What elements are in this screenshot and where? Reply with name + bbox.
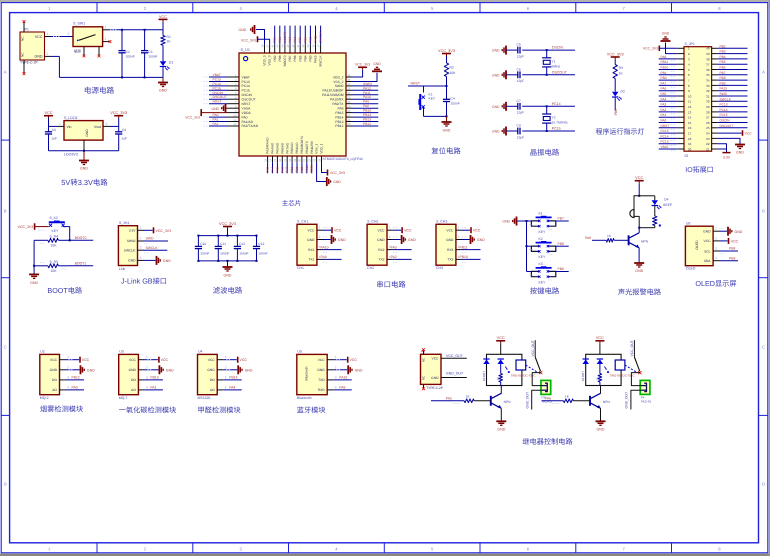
net VCC_OUT wire (441, 354, 467, 358)
svg-text:19: 19 (293, 158, 297, 162)
pin U5 1 to VCC (327, 355, 357, 363)
ground power circuit (158, 77, 168, 92)
svg-text:GND: GND (431, 376, 439, 380)
svg-text:OSCOUT: OSCOUT (720, 124, 734, 128)
svg-text:PA10: PA10 (363, 95, 371, 99)
zone divider left (1, 139, 9, 141)
svg-text:PA0: PA0 (72, 386, 78, 390)
svg-text:100nF: 100nF (239, 252, 248, 256)
pin CH1 3 net PA10 (317, 245, 342, 252)
svg-text:SWCLK: SWCLK (146, 246, 159, 250)
svg-text:1N4007: 1N4007 (482, 371, 486, 382)
capacitor C5 12pF (506, 43, 547, 59)
pin JP1 right 29 (718, 103, 748, 107)
pin U1 bottom 20 PB2/BOOT1 (298, 136, 304, 173)
svg-text:声光报警电路: 声光报警电路 (618, 287, 661, 296)
svg-text:VCC: VCC (446, 229, 454, 233)
pin U1 bottom 17 PA7/AD (283, 142, 289, 173)
svg-text:PB13: PB13 (335, 120, 343, 124)
zone divider left (1, 414, 9, 416)
pin JP1 right 21 (0, 0, 1, 1)
svg-text:10: 10 (688, 94, 692, 98)
svg-text:U2: U2 (40, 350, 45, 354)
pin CH2 3 net PA3 (387, 245, 412, 252)
junction filter vcc (227, 235, 229, 237)
svg-text:GND: GND (333, 180, 341, 184)
svg-text:PB3: PB3 (308, 37, 312, 43)
pin JP1 left 10 (659, 92, 718, 98)
wire U1 VSS_1 to GND (317, 162, 342, 186)
svg-text:OSCIN: OSCIN (213, 91, 224, 95)
zone divider right (759, 139, 768, 141)
svg-text:SWIO: SWIO (335, 84, 344, 88)
pin U1 top 46 PB9 (271, 26, 277, 62)
svg-text:34: 34 (706, 79, 710, 83)
svg-text:CH1: CH1 (297, 266, 304, 270)
module U9 OLED (685, 221, 713, 270)
pin U1 left 9 VDDA (228, 109, 252, 115)
pin CH1 2 to GND (317, 235, 346, 244)
svg-text:PA9: PA9 (363, 100, 369, 104)
pin U1 right 34 SWIO (335, 82, 379, 88)
svg-text:PB11/RX: PB11/RX (310, 140, 314, 154)
power VCC_3V3 JP1 pin1 (643, 46, 678, 52)
svg-text:VBAT: VBAT (242, 75, 250, 79)
wire filter bottom rail (198, 260, 257, 262)
svg-text:22: 22 (706, 142, 710, 146)
pin JP1 left 2 (678, 52, 718, 56)
svg-text:VCC: VCC (473, 229, 481, 233)
svg-text:PA6: PA6 (661, 87, 667, 91)
svg-text:KEY: KEY (539, 230, 547, 234)
svg-text:12pF: 12pF (517, 54, 525, 58)
svg-text:VCC: VCC (50, 358, 58, 362)
capacitor C3 100nF (141, 30, 158, 78)
svg-text:PB7: PB7 (288, 37, 292, 43)
net OSCOUT wire (546, 70, 575, 75)
pin U1 left 8 VSSA (228, 105, 252, 111)
svg-text:100nF: 100nF (220, 252, 229, 256)
pin U1 bottom 13 PA3/RX/AD (263, 137, 269, 174)
svg-text:电源电路: 电源电路 (84, 86, 115, 95)
button K2 KEY boot (49, 216, 70, 240)
capacitor C6 12pF (506, 67, 547, 83)
svg-text:4: 4 (715, 256, 717, 260)
svg-text:GND: GND (408, 238, 416, 242)
svg-text:16: 16 (278, 158, 282, 162)
svg-text:VCC: VCC (404, 229, 412, 233)
pin U4 4 net PA4 (217, 385, 242, 390)
svg-text:1: 1 (715, 227, 717, 231)
resistor R6 (653, 206, 661, 228)
svg-text:VDD_3: VDD_3 (263, 55, 267, 66)
zone divider bottom (671, 543, 673, 553)
svg-text:BOOT1: BOOT1 (75, 261, 87, 265)
svg-text:GND: GND (50, 368, 58, 372)
svg-text:PB10: PB10 (305, 165, 309, 173)
pin U2 2 to GND (60, 365, 96, 374)
svg-text:3: 3 (225, 375, 227, 379)
capacitor C11 100nF (215, 235, 230, 262)
pin U1 left 6 OSCOUT (204, 95, 256, 101)
pin JP1 right 34 (718, 76, 748, 80)
svg-text:R2: R2 (450, 66, 454, 70)
svg-text:35: 35 (347, 78, 351, 82)
wire U1 VDD_1 to VCC_3V3 (322, 162, 345, 175)
pin P1 GND wire (45, 52, 60, 57)
pin U1 top 41 PB5 (296, 26, 302, 62)
svg-text:29: 29 (706, 105, 710, 109)
pin JP1 left 19 (659, 140, 718, 146)
svg-text:PC14: PC14 (720, 108, 728, 112)
svg-text:C10: C10 (200, 242, 206, 246)
svg-text:VCC_OUT: VCC_OUT (531, 340, 535, 356)
svg-text:GND: GND (87, 368, 95, 372)
svg-text:D: D (762, 481, 765, 486)
switch SW1 rocker (73, 22, 103, 54)
svg-text:32: 32 (706, 89, 710, 93)
svg-text:PA1: PA1 (661, 113, 667, 117)
module U3 MQ-7 (119, 350, 139, 400)
power VCC relay (496, 336, 505, 354)
svg-text:PB9: PB9 (720, 81, 726, 85)
pin JP1 right row20 stub (718, 148, 727, 150)
net PB6 wire (529, 267, 569, 280)
svg-text:C7: C7 (517, 99, 521, 103)
svg-text:蓝牙模块: 蓝牙模块 (297, 405, 326, 414)
svg-text:20: 20 (298, 158, 302, 162)
svg-text:RX3: RX3 (447, 248, 454, 252)
svg-text:PC15: PC15 (661, 129, 669, 133)
svg-text:R3: R3 (619, 66, 623, 70)
pin JH1 4 to GND (138, 256, 172, 265)
svg-text:2: 2 (319, 235, 321, 239)
svg-text:C5: C5 (517, 43, 521, 47)
crystal Y1 8MHz (542, 50, 560, 75)
svg-text:2: 2 (389, 235, 391, 239)
svg-text:PA4: PA4 (271, 167, 275, 173)
pin U1 left 10 PA0 (204, 113, 248, 119)
svg-text:1K: 1K (619, 72, 624, 76)
svg-text:GND: GND (703, 230, 711, 234)
pin JP1 left 15 (659, 119, 718, 125)
svg-text:S_CH1: S_CH1 (297, 220, 308, 224)
svg-text:GND: GND (211, 107, 219, 111)
svg-text:主芯片: 主芯片 (282, 199, 302, 207)
svg-text:复位电路: 复位电路 (431, 147, 461, 156)
svg-text:继电器控制电路: 继电器控制电路 (522, 437, 572, 446)
svg-text:C6: C6 (517, 67, 521, 71)
pin JP1 right 33 (718, 81, 748, 85)
ground crystal row (492, 127, 506, 136)
svg-text:S_CH3: S_CH3 (436, 220, 447, 224)
svg-text:VCC: VCC (44, 111, 52, 115)
pin JP1 right 31 (718, 92, 748, 96)
wire contact to terminal (631, 373, 641, 386)
svg-text:RX1: RX1 (308, 248, 315, 252)
pin U1 top 42 PB6 (291, 26, 297, 62)
power port VCC_3V3 run led (607, 52, 624, 64)
svg-text:C: C (762, 344, 765, 349)
window top edge strip (0, 0, 770, 2)
pin OLED 1 to GND (713, 227, 743, 236)
svg-text:26: 26 (706, 121, 710, 125)
svg-text:20: 20 (688, 147, 692, 151)
svg-text:VCC: VCC (161, 358, 169, 362)
wire alarm split (638, 195, 655, 197)
diode D 1N4007 flyback (482, 359, 490, 382)
capacitor C4 100nF (443, 86, 460, 116)
svg-text:2: 2 (458, 235, 460, 239)
diode D 1N4007 flyback (581, 359, 589, 382)
svg-text:BEEP: BEEP (663, 203, 673, 207)
resistor 1K relay base (431, 394, 491, 403)
svg-text:16: 16 (688, 126, 692, 130)
svg-text:PB9: PB9 (614, 109, 618, 116)
pin JP1 left 5 (659, 66, 718, 72)
module U5 Bluetooth (297, 350, 327, 400)
contact terminal x (539, 371, 542, 374)
svg-text:PA5/AD: PA5/AD (276, 142, 280, 154)
svg-text:SDA: SDA (704, 259, 712, 263)
capacitor C8 1uF (45, 126, 57, 150)
svg-text:GND: GND (317, 368, 325, 372)
svg-text:PC15: PC15 (242, 89, 250, 93)
svg-text:30: 30 (347, 100, 351, 104)
pin CH1 1 to VCC (317, 226, 342, 234)
svg-text:37: 37 (706, 63, 710, 67)
svg-text:TYPE-C-2P: TYPE-C-2P (426, 386, 443, 390)
button K1 KEY (527, 212, 556, 234)
svg-text:3: 3 (67, 375, 69, 379)
svg-text:OLED: OLED (695, 240, 699, 250)
svg-text:PC15: PC15 (213, 86, 221, 90)
svg-text:PB13: PB13 (150, 376, 158, 380)
svg-text:VSS_3: VSS_3 (268, 55, 272, 65)
svg-text:U4: U4 (198, 350, 203, 354)
pin U1 top 38 PA15 (311, 26, 317, 63)
svg-text:PB7: PB7 (288, 55, 292, 61)
svg-text:PA5: PA5 (275, 167, 279, 173)
svg-text:18: 18 (288, 158, 292, 162)
svg-text:PC13: PC13 (661, 140, 669, 144)
zone divider bottom (479, 543, 481, 553)
svg-text:GND: GND (492, 73, 500, 77)
pin CH2 2 to GND (387, 235, 416, 244)
contact terminal x (638, 371, 641, 374)
power VCC JP1 right row17 (718, 130, 752, 136)
net PC14 wire (546, 102, 575, 107)
svg-text:TYPE-C-2P: TYPE-C-2P (20, 60, 38, 64)
svg-text:PB8: PB8 (720, 76, 726, 80)
svg-text:46: 46 (271, 44, 275, 48)
svg-text:1: 1 (389, 226, 391, 230)
svg-text:A: A (4, 69, 7, 74)
pin U1 bottom 14 PA4/AD (268, 142, 274, 173)
svg-text:18: 18 (688, 137, 692, 141)
pin U1 right 27 PB14 (335, 113, 378, 119)
svg-text:12pF: 12pF (517, 111, 525, 115)
ground alarm (634, 263, 644, 273)
power VCC_3V3 U1 VDD_3 top (241, 36, 270, 44)
pin U3 2 to GND (138, 365, 174, 374)
svg-text:PA3/RX/AD: PA3/RX/AD (266, 137, 270, 154)
net GND_OUT wire terminal (525, 390, 542, 409)
svg-text:OSCIN: OSCIN (242, 93, 253, 97)
svg-text:25: 25 (347, 122, 351, 126)
svg-text:PB7: PB7 (720, 71, 726, 75)
zone divider bottom (96, 543, 98, 553)
pin JP1 left 14 (659, 113, 718, 119)
svg-text:1: 1 (458, 226, 460, 230)
pin U2 1 to VCC (60, 355, 90, 363)
svg-text:100nF: 100nF (148, 55, 157, 59)
svg-text:PB5: PB5 (720, 60, 726, 64)
pin JH1 1 to VCC_3V3 (138, 226, 172, 234)
svg-text:U9: U9 (686, 221, 691, 225)
svg-text:11: 11 (233, 118, 236, 122)
pin U1 bottom 24 VDD_1 (317, 143, 323, 162)
pin JP1 right 25 (718, 124, 748, 128)
LED D2 (612, 79, 625, 111)
pin OLED 4 net PB9 (713, 256, 738, 261)
wire alarm join (638, 227, 655, 229)
svg-text:S_CH2: S_CH2 (367, 220, 378, 224)
capacitor C2 100nF (118, 30, 135, 78)
power VCC alarm (635, 176, 644, 196)
pin U1 right 33 PA12/USB/DP (322, 86, 378, 92)
svg-text:23: 23 (706, 137, 710, 141)
pin U1 right 35 VSS_2 (333, 78, 352, 84)
pin JP1 right 24 (0, 0, 1, 1)
net NRST wire (408, 82, 448, 88)
pin JP1 right 37 (718, 60, 748, 64)
svg-text:35: 35 (706, 73, 710, 77)
connector JP1 IO header (684, 42, 712, 158)
svg-text:PA12: PA12 (363, 86, 371, 90)
resistor 1K relay base (542, 394, 591, 403)
svg-text:3: 3 (140, 246, 142, 250)
svg-text:19: 19 (688, 142, 692, 146)
svg-text:VCC: VCC (596, 336, 604, 340)
svg-text:PA3: PA3 (661, 103, 667, 107)
svg-text:32: 32 (347, 91, 351, 95)
pin JP1 left 18 (659, 134, 718, 140)
svg-text:43: 43 (286, 44, 290, 48)
svg-text:VCC: VCC (731, 239, 739, 243)
zone divider bottom (575, 543, 577, 553)
svg-text:100nF: 100nF (258, 252, 267, 256)
button K1 KEY reset (418, 86, 446, 116)
svg-text:MQ-2: MQ-2 (40, 396, 49, 400)
junction dots power rail (121, 29, 146, 79)
svg-text:PA1: PA1 (213, 118, 219, 122)
svg-text:GND: GND (338, 238, 346, 242)
svg-text:PB6: PB6 (293, 55, 297, 61)
svg-text:C8: C8 (52, 128, 56, 132)
svg-text:17: 17 (283, 158, 287, 162)
svg-text:VCC_3V3: VCC_3V3 (241, 38, 256, 42)
svg-text:8MHz: 8MHz (552, 64, 561, 68)
window bottom edge strip (0, 554, 770, 556)
svg-text:PB8: PB8 (729, 247, 736, 251)
ground filter (223, 260, 233, 278)
svg-text:GND: GND (35, 55, 43, 59)
ground ldo (79, 151, 89, 171)
wire keys bus (526, 220, 528, 272)
svg-text:GND_OUT: GND_OUT (446, 371, 464, 375)
svg-text:2: 2 (140, 237, 142, 241)
net GND_OUT wire terminal (625, 390, 642, 409)
svg-text:GND: GND (129, 368, 137, 372)
zone divider left (1, 277, 9, 279)
svg-text:1: 1 (105, 37, 107, 41)
svg-text:C11: C11 (220, 242, 226, 246)
svg-text:GND: GND (239, 28, 247, 32)
svg-text:45: 45 (276, 44, 280, 48)
svg-text:SWIO: SWIO (363, 82, 372, 86)
svg-text:PA11/USB/DM: PA11/USB/DM (322, 93, 344, 97)
zone divider right (759, 414, 768, 416)
svg-text:GND: GND (355, 368, 363, 372)
resistor R3 1K (613, 65, 623, 79)
svg-text:SWIO: SWIO (127, 239, 136, 243)
resistor R1 (161, 30, 172, 46)
svg-text:VCC: VCC (635, 176, 643, 180)
svg-text:PA7/AD: PA7/AD (285, 142, 289, 154)
svg-text:BOOT0: BOOT0 (75, 236, 87, 240)
svg-text:36: 36 (347, 73, 351, 77)
ground crystal row (492, 70, 506, 79)
pin JP1 right 30 (718, 97, 748, 101)
svg-text:NRST: NRST (213, 100, 222, 104)
svg-text:3: 3 (106, 122, 108, 126)
svg-text:5V转3.3V电路: 5V转3.3V电路 (61, 178, 108, 187)
net OSCIN wire (546, 46, 575, 51)
svg-text:S_LDO1: S_LDO1 (64, 116, 78, 120)
svg-text:DO: DO (131, 378, 136, 382)
svg-text:VCC: VCC (240, 358, 248, 362)
zone divider right (759, 277, 768, 279)
wire bottom rail (59, 76, 163, 78)
svg-text:NRST: NRST (661, 124, 670, 128)
svg-text:VCC_3V3: VCC_3V3 (110, 111, 127, 115)
svg-text:33: 33 (347, 87, 351, 91)
pin P1 shield bottom (23, 60, 26, 75)
svg-text:26: 26 (347, 118, 351, 122)
svg-text:程序运行指示灯: 程序运行指示灯 (596, 128, 645, 136)
svg-text:17: 17 (688, 132, 692, 136)
svg-text:TX2: TX2 (378, 258, 384, 262)
svg-text:1uF: 1uF (51, 137, 57, 141)
svg-text:S_R5: S_R5 (50, 260, 59, 264)
svg-text:SWCLK: SWCLK (319, 55, 323, 67)
svg-text:PB2/BOOT1: PB2/BOOT1 (300, 136, 304, 154)
svg-text:VCC_3V3: VCC_3V3 (643, 47, 658, 51)
pin U1 right 31 PA10/RX (330, 95, 378, 101)
svg-text:OLED: OLED (686, 267, 696, 271)
svg-text:PB10: PB10 (460, 255, 468, 259)
svg-text:PA10: PA10 (321, 245, 329, 249)
ground boot (29, 266, 39, 285)
svg-text:VBAT: VBAT (661, 145, 669, 149)
svg-text:晶振电路: 晶振电路 (530, 148, 560, 157)
svg-text:4: 4 (146, 385, 148, 389)
svg-text:31: 31 (706, 94, 710, 98)
svg-text:PA2: PA2 (213, 122, 219, 126)
pin U1 right 25 PB12 (335, 122, 378, 128)
pin JP1 right 35 (718, 71, 748, 75)
